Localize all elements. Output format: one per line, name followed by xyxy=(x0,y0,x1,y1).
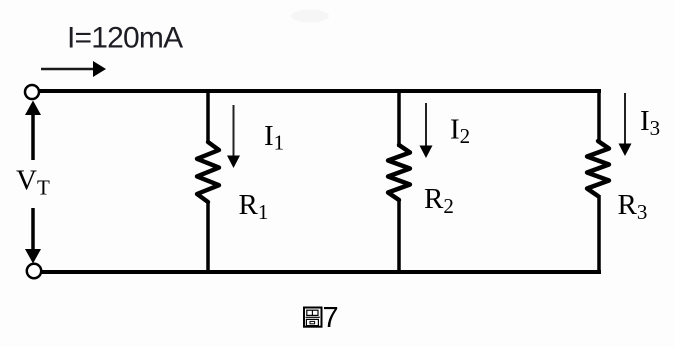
svg-text:I=120mA: I=120mA xyxy=(67,22,183,55)
svg-text:7: 7 xyxy=(323,302,339,334)
